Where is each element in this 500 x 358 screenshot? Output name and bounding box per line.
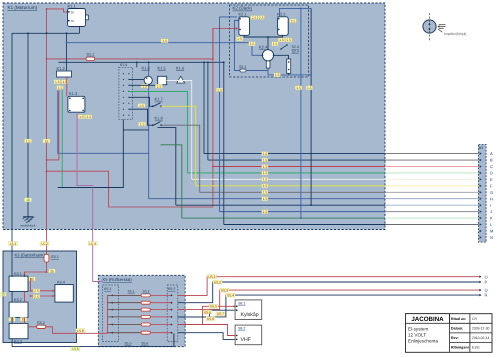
svg-text:M: M (490, 229, 493, 234)
svg-text:S2.4: S2.4 (292, 50, 299, 54)
svg-text:U5.5: U5.5 (210, 305, 217, 309)
wire black return under K1.9 (58, 120, 124, 188)
pin 1 VHF (236, 335, 238, 337)
svg-text:1.5: 1.5 (275, 73, 280, 77)
svg-text:1.5: 1.5 (262, 210, 267, 214)
svg-text:L5.6: L5.6 (72, 347, 79, 351)
svg-text:1.5: 1.5 (162, 39, 167, 43)
wire black horizontal bus under K1.1 (12, 32, 80, 34)
terminal pin K5.2 row 4 (171, 316, 173, 318)
component K2.2 (battery switch) (278, 17, 289, 36)
svg-text:Impeller(frihjul): Impeller(frihjul) (444, 32, 466, 36)
svg-text:S3.2: S3.2 (37, 321, 45, 325)
svg-text:CR: CR (472, 317, 477, 321)
wire row D green from K1.9 (129, 91, 188, 173)
wire red K3.2 to K3.3 (23, 317, 25, 323)
junction red at battery1 right (30, 290, 32, 292)
pin left of K2.4 (262, 54, 264, 56)
svg-text:U5.4: U5.4 (227, 293, 234, 297)
junction blue top loop (300, 8, 302, 10)
pin 86 of K1.3 (82, 110, 84, 112)
wire row A vertical from bus (203, 62, 205, 153)
component K2.4 stem (266, 61, 270, 68)
label U5.2 (213, 280, 222, 284)
fuse S5.6 (141, 331, 150, 334)
label 1.5 right of K2.4 (272, 42, 278, 46)
pin plus K3.1 (11, 275, 13, 277)
svg-text:12 VOLT: 12 VOLT (408, 333, 426, 338)
title block frame (406, 314, 493, 353)
wire row D to connector pin D (187, 172, 385, 174)
component K3.2 battery (9, 302, 28, 317)
label U5.7 (216, 312, 225, 316)
svg-text:1.5: 1.5 (55, 80, 60, 84)
wire row F to connector pin F (196, 185, 385, 187)
svg-text:Datum:: Datum: (451, 326, 463, 330)
svg-text:Enlinjeschema: Enlinjeschema (408, 339, 438, 344)
wire red riser in K5.1 (107, 295, 109, 333)
svg-text:K1 (Motorrum): K1 (Motorrum) (8, 5, 38, 10)
wire purple lighting feed (77, 112, 103, 282)
component K3.3 battery (9, 323, 28, 338)
pin shunt top (288, 61, 290, 63)
arrow into Kylskap pin1 (234, 305, 236, 307)
gauge label row J (262, 210, 268, 214)
svg-text:1.5: 1.5 (262, 165, 267, 169)
label 1.5 below K2.2 b (286, 38, 292, 42)
gauge labels on connector rows (262, 152, 268, 201)
wire red output U5.5 to Kylskap (178, 306, 235, 324)
svg-text:P: P (485, 280, 488, 285)
label L2.2 below K2 (306, 86, 312, 90)
label L3.4 on left edge (1, 293, 7, 297)
arrow red into K3.4 b (52, 295, 54, 298)
svg-text:2009-12-30: 2009-12-30 (472, 326, 489, 330)
svg-text:H: H (490, 196, 493, 201)
fuse S5.2 (141, 301, 150, 304)
svg-text:S5.5: S5.5 (125, 342, 132, 346)
svg-text:K1.4: K1.4 (142, 65, 151, 70)
wire navy output U5.4 (178, 295, 481, 317)
pin 2 of K2.1 (239, 29, 241, 31)
svg-text:1.5: 1.5 (237, 37, 242, 41)
fuse S2.1 (240, 69, 246, 72)
wire red lower loop from feed (47, 171, 213, 207)
wire row G gray from K1.8 (161, 125, 200, 192)
svg-text:K3.2: K3.2 (14, 298, 22, 302)
wire red from main feed to fuse S1.1 (47, 58, 86, 60)
svg-text:VHF: VHF (241, 337, 251, 343)
svg-text:1.5: 1.5 (262, 158, 267, 162)
title block grid lines (450, 314, 493, 353)
wire red fuse to battery 1 (24, 262, 46, 275)
wire black bus drop to K1.9 (136, 62, 138, 67)
terminal strip K1.9 enclosure (119, 67, 133, 119)
svg-text:K2.1: K2.1 (239, 12, 248, 17)
wire black K5.2 to ground bus (173, 333, 175, 346)
svg-text:S2.3: S2.3 (292, 45, 299, 49)
terminal pin K5.2 row 1 (171, 295, 173, 297)
svg-text:K1.3: K1.3 (69, 91, 78, 96)
region K1 (Motorrum) enclosure (3, 3, 385, 230)
wire red K1.3 branch to feed (47, 91, 59, 160)
svg-text:K1.5: K1.5 (158, 65, 167, 70)
wire navy output U5.8 to VHF (178, 333, 235, 340)
label L1.12 on red feed (43, 139, 50, 143)
wire red vertical deck feed lower part (212, 29, 214, 208)
junction red lower at feed (46, 170, 48, 172)
label L5.6 on ground bus (71, 347, 80, 351)
pin 2 Kylskap (236, 309, 238, 311)
wire navy output U5.6 to Kylskap (178, 310, 235, 317)
svg-text:16: 16 (26, 198, 30, 202)
svg-text:K5.1: K5.1 (104, 287, 111, 291)
wire row H to connector pin H (149, 198, 385, 200)
terminal strip K5.2 enclosure (167, 285, 178, 342)
wire red fuse S5.3 to K5.2 (150, 309, 170, 311)
label U5.4 (226, 293, 235, 297)
wire red fuse S5.1 to K5.2 (150, 294, 170, 296)
label L3.7 (49, 269, 55, 273)
wire navy deck return down (310, 8, 312, 205)
svg-text:2.5: 2.5 (259, 16, 264, 20)
svg-text:N: N (490, 235, 493, 240)
svg-text:K3.3: K3.3 (14, 339, 22, 343)
svg-text:K3.4: K3.4 (57, 281, 65, 285)
junction red at fuse level (212, 58, 214, 60)
component K1.2 (57, 71, 72, 77)
label U5.8 (206, 317, 215, 321)
label 1.5 bottom of K2 (274, 73, 280, 77)
svg-text:K2 (Däck): K2 (Däck) (233, 6, 253, 11)
wire blue deck feed down (300, 8, 302, 218)
label 1.5 left of K2.4 (249, 42, 255, 46)
wire red main feed vertical (46, 9, 48, 254)
arrow and letter Q (479, 289, 481, 292)
component K1.3 (relay) (68, 96, 85, 112)
wire row K dark green from K1 area (161, 145, 182, 218)
terminal pin K5.1 row 1 (111, 295, 113, 297)
svg-text:S5.1: S5.1 (128, 290, 135, 294)
junction blue row K (300, 217, 302, 219)
label L1.8 under K1.3 (78, 115, 84, 119)
terminal pin K5.1 row 3 (111, 309, 113, 311)
pin right of K2.4 (273, 54, 275, 56)
svg-text:1.5: 1.5 (58, 86, 63, 90)
label L1.6 at K1.8 (139, 122, 146, 126)
pin 1 of K2.1 (239, 18, 241, 20)
junction red K1.3 branch (46, 159, 48, 161)
svg-text:1.5: 1.5 (262, 171, 267, 175)
wire red output U5.1 (178, 277, 481, 296)
svg-text:2010-02-14: 2010-02-14 (472, 336, 489, 340)
fuse S5.3 (141, 308, 150, 311)
wire blue fuse to stem (246, 70, 268, 72)
component K1.5 (gauge) (158, 76, 167, 84)
label 2.5 right of K2.2 (290, 19, 296, 23)
wire row L to connector pin L (224, 224, 385, 226)
wire red fuse S5.4 to K5.2 (150, 316, 170, 318)
terminal pin K5.2 row 6 (171, 332, 173, 334)
wire red rising to K2.1 pin (213, 29, 237, 59)
arrow and letter P (479, 281, 481, 284)
svg-text:K2.4: K2.4 (259, 45, 268, 50)
wire shunt bottom down (288, 73, 290, 75)
wire row E to connector pin E (192, 178, 385, 180)
svg-text:1.5: 1.5 (86, 115, 91, 119)
svg-text:O: O (485, 274, 488, 279)
label U5.1 (208, 275, 217, 279)
pin 2 VHF (236, 339, 238, 341)
junction ground branch (27, 32, 29, 34)
svg-text:S5.2: S5.2 (143, 290, 150, 294)
component K1.8 (switch) (152, 122, 162, 127)
wire blue long to deck instrument (67, 43, 263, 56)
wire red K1.2 to K1.3 (66, 77, 68, 96)
fuse S5.1 (141, 294, 150, 297)
svg-text:L5.1: L5.1 (10, 242, 17, 246)
wire red fuse S5.5 to K5.2 (150, 324, 170, 326)
arrow red into battery1 (23, 274, 26, 276)
svg-text:1.5: 1.5 (262, 191, 267, 195)
wire row F yellow from K1.7 (161, 106, 196, 186)
wire black K3.3 negative to ground bus (12, 339, 174, 347)
svg-text:J: J (490, 209, 492, 214)
pin 50 of K1.1 (68, 20, 70, 22)
terminal pin K5.1 row 4 (111, 316, 113, 318)
component K2.1 (battery switch) (239, 17, 250, 36)
fuse S3.1 (44, 254, 49, 262)
component impeller symbol (423, 20, 436, 33)
svg-text:K1.8: K1.8 (155, 116, 164, 121)
svg-text:K1.7: K1.7 (155, 97, 164, 102)
junction navy row I (310, 204, 312, 206)
component K3.4 (inverter) (55, 285, 73, 303)
terminal pins K1.9 left column (123, 73, 124, 116)
label L5.3 on purple feed (88, 242, 97, 246)
svg-text:B: B (490, 158, 493, 163)
connector K7 pins and letters (480, 151, 494, 240)
svg-text:K1.2: K1.2 (57, 66, 66, 71)
arrow and letter R (479, 294, 481, 297)
terminal pin K5.1 row 5 (111, 324, 113, 326)
wire to fuse S5.4 (108, 316, 142, 318)
wire red from S1.1 to K2.1 (95, 58, 213, 60)
svg-text:G: G (490, 190, 493, 195)
region K3 (Batteribank) enclosure (3, 251, 77, 343)
svg-text:S5.6: S5.6 (141, 342, 148, 346)
svg-text:1.5: 1.5 (262, 197, 267, 201)
svg-text:1.5: 1.5 (286, 38, 291, 42)
label L1.3 under K1.2 (57, 86, 63, 90)
svg-text:I: I (490, 203, 491, 208)
svg-text:30: 30 (71, 10, 75, 14)
label 1.5 on deck instrument wire (161, 39, 168, 43)
label L3.8 (29, 277, 35, 281)
wire red K3.1 to K3.2 (23, 291, 25, 302)
svg-text:1.5: 1.5 (250, 42, 255, 46)
wire red output U5.7 to VHF (178, 325, 235, 336)
label L1.11 on ground wire (25, 139, 32, 143)
wire black K1.9 link to H column (123, 129, 148, 131)
svg-text:S1.1: S1.1 (87, 53, 95, 57)
connector K7 body (479, 145, 487, 243)
component K1.1 (startmotor) (68, 9, 86, 27)
component S2.2 shunt (287, 59, 291, 73)
wire to fuse S5.2 (108, 302, 142, 304)
svg-text:1.5: 1.5 (307, 86, 312, 90)
wire black from bus to K1.2 (66, 33, 68, 71)
wire row H blue from K1.2 column (58, 91, 149, 199)
pin shunt bottom (288, 69, 290, 71)
fuse S5.5 (141, 323, 150, 326)
svg-text:U5.1: U5.1 (208, 275, 215, 279)
pin 30 of K1.1 (68, 11, 70, 13)
wire blue vertical from bus to row H (148, 62, 150, 153)
svg-text:El-system: El-system (408, 326, 428, 331)
svg-text:K3.1: K3.1 (14, 272, 22, 276)
svg-text:1.5: 1.5 (273, 42, 278, 46)
wire row C red branch from red vertical (213, 165, 385, 167)
svg-text:1.5: 1.5 (262, 178, 267, 182)
label 1.5 below K2.2 a (278, 38, 284, 42)
terminal pin K5.1 row 6 (111, 332, 113, 334)
label 1.5 on row J vertical (216, 88, 222, 92)
svg-text:K7: K7 (479, 146, 483, 150)
pin minus K3.1 (24, 275, 26, 277)
label L2.1 below K2 (295, 86, 301, 90)
svg-text:S8.2: S8.2 (238, 327, 245, 331)
pin 1 of K2.2 (278, 18, 280, 20)
junction bus red crossing (46, 32, 48, 34)
terminal pin K5.1 row 2 (111, 302, 113, 304)
wire blue K2 left loop (234, 21, 240, 71)
arrow red into K2.1 (236, 27, 238, 30)
svg-text:1.5: 1.5 (140, 122, 145, 126)
svg-text:1.5: 1.5 (279, 38, 284, 42)
ground symbol motorblock (23, 217, 35, 223)
wire blue K2.2 top loop (280, 8, 312, 16)
junction red distribution (46, 271, 48, 273)
wire row G to connector pin G (200, 191, 385, 193)
svg-text:1.5: 1.5 (79, 115, 84, 119)
wire black distribution bus (59, 61, 224, 63)
component K2.4 (meter) (262, 50, 273, 61)
svg-text:2.5: 2.5 (34, 295, 39, 299)
terminal pin K5.2 row 5 (171, 324, 173, 326)
junction bus K1.2 branch (66, 32, 68, 34)
component S8.2 VHF (235, 325, 262, 345)
wire navy output U5.2 (178, 282, 481, 303)
wire black link to meter (267, 37, 269, 50)
wire to fuse S5.3 (108, 309, 142, 311)
label 2.5 right of K2.1 (251, 16, 257, 20)
svg-text:K: K (490, 216, 493, 221)
label L3.11 (33, 295, 39, 299)
wire black battery positive feed vertical (11, 33, 13, 276)
svg-text:1.5: 1.5 (26, 139, 31, 143)
wire red fuse S5.6 to K5.2 (150, 332, 170, 334)
junction red row C (212, 166, 214, 168)
svg-text:K1.9: K1.9 (120, 63, 127, 67)
wire black K1.1 pin50 down to bus (79, 27, 81, 34)
pin 30 of K1.3 (69, 98, 71, 100)
svg-text:C: C (490, 164, 493, 169)
wire row J vertical (219, 17, 221, 212)
svg-text:E: E (490, 177, 493, 182)
terminal pin K5.2 row 3 (171, 309, 173, 311)
svg-text:16: 16 (45, 139, 49, 143)
wire black K3.2 to K3.3 (11, 317, 13, 323)
label L5.1 on black feed (9, 242, 18, 246)
wire to K1.8 (129, 109, 152, 125)
label L3.10 (33, 289, 39, 293)
region K5 (Ruffen) enclosure (98, 275, 185, 346)
pin 2 of K2.2 (278, 29, 280, 31)
junction bus row H (148, 61, 150, 63)
component K1.4 inner dot (146, 77, 148, 79)
impeller top marker (428, 23, 430, 25)
label L5.2 on red feed (40, 242, 49, 246)
wire ground branch vertical (27, 33, 29, 216)
svg-text:U5.2: U5.2 (214, 280, 221, 284)
svg-text:2.5: 2.5 (291, 19, 296, 23)
wire stem to bottom run (268, 68, 311, 75)
label L3.1 (9, 317, 15, 321)
wire row K to connector pin K (182, 217, 385, 219)
wire red fuse S5.2 to K5.2 (150, 302, 170, 304)
label L1.9 under K1.3 (86, 115, 92, 119)
svg-text:A: A (490, 151, 493, 156)
pin 1 Kylskap (236, 305, 238, 307)
svg-text:U5.7: U5.7 (217, 312, 224, 316)
wire red battery1 to K3.4 a (30, 278, 54, 291)
svg-text:L5.3: L5.3 (89, 242, 96, 246)
wire row B to connector pin B (208, 159, 385, 161)
svg-text:50: 50 (71, 19, 75, 23)
wire to fuse S5.1 (108, 294, 142, 296)
component K1.1 tab (86, 15, 89, 20)
component K1.7 (switch) (152, 103, 162, 108)
svg-text:35: 35 (2, 293, 6, 297)
svg-text:L5.2: L5.2 (41, 242, 48, 246)
impeller axis dashed line (429, 13, 431, 41)
svg-text:K5 (Ruffcentral): K5 (Ruffcentral) (103, 277, 133, 282)
wire red service feed to K5 (46, 327, 108, 334)
region K2 (Dack) enclosure (230, 5, 309, 77)
wire row A to connector pin A (204, 153, 385, 155)
svg-text:Ritad av:: Ritad av: (451, 317, 466, 321)
svg-text:S2.1: S2.1 (239, 65, 246, 69)
title description cell (408, 326, 438, 343)
impeller bottom marker (428, 29, 430, 31)
svg-text:Ritningsnr:: Ritningsnr: (451, 346, 470, 350)
fuse S1.1 (86, 57, 95, 60)
arrow and letter O (479, 275, 481, 278)
pin 85 of K1.3 (69, 110, 71, 112)
svg-text:1.5: 1.5 (157, 84, 162, 88)
junction bus drop (136, 61, 138, 63)
switch S2.3 (280, 44, 288, 50)
impeller flow arrow (438, 25, 446, 32)
svg-text:S3.1: S3.1 (51, 255, 59, 259)
label 1.5 below K2.1 (236, 37, 242, 41)
label U5.5 (209, 304, 218, 308)
svg-text:K5.2: K5.2 (168, 287, 175, 291)
wire row B vertical from bus (207, 62, 209, 160)
svg-text:1.5: 1.5 (262, 152, 267, 156)
component K1.6 (warning) (177, 76, 185, 83)
